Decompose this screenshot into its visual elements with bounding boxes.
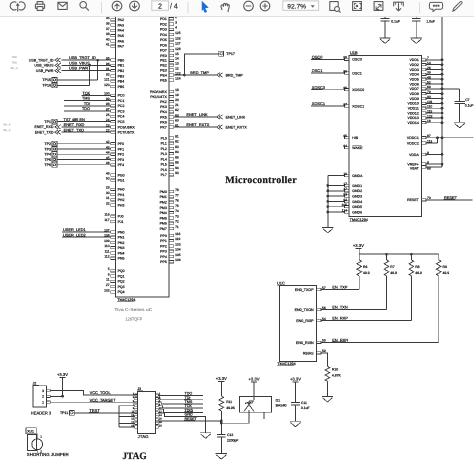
svg-text:USB_PWR: USB_PWR <box>69 66 88 71</box>
net label XOSC1 <box>312 101 326 106</box>
svg-text:OSC1: OSC1 <box>352 71 362 75</box>
wire GND4 <box>328 200 345 202</box>
svg-text:EN_RXP: EN_RXP <box>332 316 348 321</box>
svg-text:76: 76 <box>175 199 179 203</box>
svg-text:Microcontroller: Microcontroller <box>225 175 297 186</box>
power rail +3.3V vertical bus (right of U1B) <box>441 8 443 167</box>
svg-text:BN_A: BN_A <box>4 124 11 127</box>
pin PM6 (72) <box>160 220 179 226</box>
svg-text:73: 73 <box>175 214 179 218</box>
pin PH2 (31) <box>106 196 125 202</box>
pin PQ3 (27) <box>106 283 125 289</box>
svg-text:1: 1 <box>40 435 42 439</box>
pin PN0 (107) <box>104 228 124 234</box>
svg-text:112: 112 <box>104 255 109 259</box>
wire EN_TXP <box>321 289 359 291</box>
svg-text:BN_A: BN_A <box>4 129 11 132</box>
svg-text:XU1: XU1 <box>27 430 34 434</box>
svg-text:PA7: PA7 <box>118 45 124 49</box>
svg-text:GND4: GND4 <box>352 200 362 204</box>
svg-text:94: 94 <box>175 166 179 170</box>
test point TP1 <box>44 119 56 124</box>
svg-text:86: 86 <box>175 161 179 165</box>
svg-text:C11: C11 <box>301 401 307 405</box>
pin PL7 (93) <box>161 171 179 177</box>
pin PL0 (81) <box>161 134 179 140</box>
pin PQ0 (5) <box>108 267 125 273</box>
margin note BN_A <box>4 124 11 127</box>
svg-text:TBD: TBD <box>12 56 17 59</box>
pin VREF+ (9) <box>407 161 429 167</box>
title Microcontroller <box>225 175 297 186</box>
toolbar icon: print <box>37 2 43 5</box>
svg-text:PK7: PK7 <box>160 125 167 129</box>
svg-text:PG1: PG1 <box>118 179 125 183</box>
off-page connector ENET_TXD <box>55 130 61 134</box>
ground <box>380 38 391 44</box>
svg-text:PE3: PE3 <box>160 68 167 72</box>
net label VCC_TARGET <box>89 397 116 402</box>
svg-text:18: 18 <box>175 88 179 92</box>
pin PE0 (15) <box>160 52 179 58</box>
net label OSC1 <box>312 68 323 73</box>
pin PA7 (41) <box>106 43 124 49</box>
svg-text:VDD7: VDD7 <box>409 87 418 91</box>
pin PD6 (127) <box>160 42 181 48</box>
capacitor C13 2200pF <box>217 421 239 454</box>
svg-text:VDD14: VDD14 <box>408 121 419 125</box>
wire BRD_TMP from PE4 <box>174 74 217 76</box>
label TM4C1294 under U1B <box>349 218 367 222</box>
net label ENET_RXTX <box>186 122 210 127</box>
svg-text:PL0: PL0 <box>161 136 167 140</box>
test point TP4 <box>44 152 56 157</box>
svg-text:128: 128 <box>175 47 181 51</box>
pin XOSC1 (67) <box>343 103 364 109</box>
net label ENET_LINK <box>186 112 208 117</box>
svg-text:USB_VBUS: USB_VBUS <box>34 64 54 68</box>
pin PE1 (14) <box>160 57 179 63</box>
pin PB1 (96) <box>106 62 124 68</box>
svg-text:103: 103 <box>175 242 181 246</box>
svg-text:PP1: PP1 <box>160 239 167 243</box>
wire rail to C7 <box>442 89 460 102</box>
svg-text:92: 92 <box>106 72 110 76</box>
svg-text:PL5: PL5 <box>161 163 167 167</box>
ground <box>322 396 333 402</box>
toolbar icon: signature pen <box>453 1 462 11</box>
svg-text:VDD12: VDD12 <box>408 111 419 115</box>
svg-text:118: 118 <box>175 232 180 236</box>
pin PD0 (1) <box>160 10 177 16</box>
net label TEST <box>89 408 100 413</box>
wire VDDC2 joins VDDC1 <box>426 138 437 143</box>
microcontroller U1A TM4C1294 (main GPIO block) <box>115 7 169 297</box>
svg-text:J3: J3 <box>137 387 141 391</box>
microcontroller U1B TM4C1294 (power/osc block) <box>349 50 421 216</box>
wire VREF+ to rail <box>426 163 443 166</box>
wire VDD7 to rail <box>426 87 443 90</box>
pin PA4 (37) <box>106 27 124 33</box>
wire GND from JTAG <box>158 413 206 433</box>
net label EN_TXP <box>332 285 348 290</box>
svg-text:PM3: PM3 <box>160 206 167 210</box>
off-page connector ENET_RXTX <box>217 125 248 130</box>
svg-text:1.0uF: 1.0uF <box>426 20 435 24</box>
svg-text:VDD5: VDD5 <box>409 78 418 82</box>
svg-text:20: 20 <box>175 98 179 102</box>
wire RBIAS to R10 <box>321 353 327 367</box>
svg-text:106: 106 <box>175 258 181 262</box>
pin PN5 (112) <box>104 255 124 261</box>
svg-text:49: 49 <box>106 171 110 175</box>
svg-text:PH1: PH1 <box>118 193 125 197</box>
svg-text:RESET: RESET <box>444 195 458 200</box>
svg-text:PF2: PF2 <box>118 153 124 157</box>
off-page connector USB_PWR <box>55 68 61 72</box>
svg-text:OSC1: OSC1 <box>312 68 323 73</box>
wire XOSC0 <box>311 89 345 91</box>
svg-text:PE1: PE1 <box>160 59 167 63</box>
svg-text:BRD_TMP: BRD_TMP <box>226 73 244 77</box>
svg-text:ENET_TXD: ENET_TXD <box>35 130 54 134</box>
pin PH1 (30) <box>106 191 125 197</box>
svg-text:PQ3: PQ3 <box>118 285 125 289</box>
wire VDD3 to rail <box>426 68 443 71</box>
pin PB3 (92) <box>106 72 124 78</box>
svg-text:PK5: PK5 <box>160 115 167 119</box>
net label USB_VBUS <box>69 60 90 65</box>
svg-text:PL3: PL3 <box>161 152 167 156</box>
net label RESET <box>184 417 197 421</box>
svg-text:PK4: PK4 <box>160 110 167 114</box>
svg-text:PC4: PC4 <box>118 115 125 119</box>
wire VDD6 to rail <box>426 83 443 86</box>
svg-text:TM4C1294: TM4C1294 <box>277 362 295 366</box>
net label BRD_TMP <box>190 70 209 75</box>
ground <box>322 227 333 233</box>
pin PK0/U4RX (18) <box>150 88 179 94</box>
pin PD2 (3) <box>160 20 177 26</box>
svg-text:PD7: PD7 <box>160 49 167 53</box>
margin note BN_A <box>11 67 18 70</box>
wire D1 to RESET node <box>220 412 249 424</box>
svg-text:105: 105 <box>175 253 181 257</box>
wire EN_RXP <box>321 320 411 322</box>
svg-text:92.7%: 92.7% <box>287 3 306 10</box>
svg-text:VDD1: VDD1 <box>409 58 418 62</box>
svg-text:PQ2: PQ2 <box>118 280 125 284</box>
label Tiva C-Series uC <box>114 307 152 312</box>
pin PL5 (86) <box>161 161 179 167</box>
svg-text:PC2: PC2 <box>118 104 125 108</box>
svg-text:ENET_RXTX: ENET_RXTX <box>226 125 248 129</box>
svg-text:25: 25 <box>106 113 110 117</box>
pin VDD14 (16) <box>408 119 431 125</box>
pin VDD5 (48) <box>409 76 430 82</box>
toolbar page number box <box>152 1 169 10</box>
svg-text:USB_TRGT_ID: USB_TRGT_ID <box>29 58 54 62</box>
svg-text:PJ1: PJ1 <box>118 220 124 224</box>
resistor R8 49.9 <box>409 254 422 320</box>
svg-text:75: 75 <box>175 204 179 208</box>
pin GNDA (10) <box>343 172 363 178</box>
net USB_TRGT_ID source text <box>29 58 54 62</box>
svg-text:85: 85 <box>175 155 179 159</box>
svg-text:OSC0: OSC0 <box>352 58 362 62</box>
wire RESET out <box>426 199 472 201</box>
svg-text:TP15: TP15 <box>42 78 51 82</box>
svg-text:21: 21 <box>175 103 179 107</box>
power +3.3V (D1) <box>248 377 259 401</box>
wire TMS to PC1 <box>64 100 110 102</box>
svg-text:+3.3V: +3.3V <box>216 376 227 381</box>
toolbar icon: presentation <box>394 2 404 6</box>
pin PC4 (25) <box>106 113 125 119</box>
pin PL2 (83) <box>161 145 179 151</box>
svg-text:PL1: PL1 <box>161 142 167 146</box>
svg-text:49.9: 49.9 <box>415 271 422 275</box>
svg-text:PA4: PA4 <box>118 29 124 33</box>
svg-text:PD5: PD5 <box>160 38 167 42</box>
svg-text:PP4: PP4 <box>160 255 167 259</box>
wire EN_TXN <box>321 309 386 311</box>
ground <box>200 433 211 439</box>
toolbar separator <box>101 2 103 13</box>
svg-text:D1: D1 <box>276 399 281 403</box>
svg-text:37: 37 <box>106 27 110 31</box>
pin VDDC1 (87) <box>407 134 431 140</box>
pin GND6 (114) <box>342 208 362 214</box>
pin PD1 (2) <box>160 15 177 21</box>
svg-text:2: 2 <box>42 395 44 399</box>
svg-text:19: 19 <box>175 93 179 97</box>
svg-text:RESET: RESET <box>407 198 420 202</box>
off-page connector BRD_TMP <box>217 73 244 78</box>
net label EN_RXN <box>332 337 348 342</box>
svg-text:TBD: TBD <box>12 62 17 65</box>
wire TST 485 EN to PC5 <box>57 121 111 123</box>
svg-text:32: 32 <box>106 202 110 206</box>
svg-text:PL2: PL2 <box>161 147 167 151</box>
svg-text:PD2: PD2 <box>160 22 167 26</box>
toolbar icon: comment <box>429 2 442 11</box>
toolbar icon: zoom out <box>244 1 254 11</box>
svg-text:PK3: PK3 <box>160 105 167 109</box>
pin PF4 (46) <box>106 161 124 167</box>
svg-text:R11: R11 <box>226 400 232 404</box>
svg-text:BAS40: BAS40 <box>276 404 287 408</box>
wire USB_TRGT_ID to PB0 <box>62 59 111 61</box>
pin PL1 (82) <box>161 140 179 146</box>
connector J3 JTAG 20-pin <box>131 387 162 439</box>
svg-text:PP5: PP5 <box>160 260 167 264</box>
svg-text:29: 29 <box>106 186 110 190</box>
wire VDD14 to rail <box>426 121 443 124</box>
wire TP4 to PF2 <box>57 153 111 155</box>
pin PA2 (35) <box>106 16 124 22</box>
pin PC5 (24) <box>106 118 125 124</box>
wire TDI to PC2 <box>64 105 110 107</box>
pin PK2 (20) <box>160 98 179 104</box>
capacitor 1.0uF (top decoupling) <box>412 8 435 38</box>
pin GND2 (47) <box>343 187 362 193</box>
resistor R11 49.9K <box>219 396 236 421</box>
svg-text:BN_A: BN_A <box>11 67 18 70</box>
pin VDD3 (26) <box>409 66 430 72</box>
svg-text:EN0_TXOP: EN0_TXOP <box>295 288 314 292</box>
svg-text:PQ0: PQ0 <box>118 269 125 273</box>
svg-text:PC3: PC3 <box>118 109 125 113</box>
off-page connector USB_VBUS <box>55 63 61 67</box>
pin PA5 (38) <box>106 32 124 38</box>
pin VDD6 (52) <box>409 80 430 86</box>
svg-text:USER_LED2: USER_LED2 <box>63 232 86 237</box>
net label TDI <box>84 102 91 106</box>
wire VDD9 to rail <box>426 97 443 100</box>
svg-text:TP1: TP1 <box>44 120 51 124</box>
junction on PB0 wire <box>96 59 99 62</box>
svg-text:HIB: HIB <box>352 136 359 140</box>
diode D1 BAS40 <box>239 397 286 419</box>
ground <box>411 38 422 44</box>
pin PB0 (95) <box>106 57 124 63</box>
net label USER_LED1 <box>63 227 86 232</box>
net label EN_TXN <box>332 305 348 310</box>
toolbar zoom level box <box>283 1 319 10</box>
wire TMS from JTAG <box>158 402 203 404</box>
pin PM2 (76) <box>160 199 179 205</box>
svg-text:ENET_LINK: ENET_LINK <box>226 115 246 119</box>
wire to TP17 <box>184 54 218 75</box>
pin VDD2 (14) <box>409 61 430 67</box>
svg-text:121: 121 <box>104 78 110 82</box>
pin PP3 (104) <box>160 248 181 254</box>
pin VBAT (68) <box>410 166 431 171</box>
svg-text:VDD3: VDD3 <box>409 68 418 72</box>
wire OSC0 <box>311 58 345 60</box>
svg-text:15: 15 <box>131 417 134 420</box>
power +3.3V (R11) <box>216 376 227 396</box>
wire TDO from JTAG <box>158 394 203 396</box>
svg-text:120: 120 <box>104 83 110 87</box>
pin VDDC2 (113) <box>407 139 432 145</box>
label TM4C1294 under U1A <box>117 298 135 302</box>
test point TP16 <box>42 83 56 88</box>
net ENET_TXD source text <box>35 130 54 134</box>
wire TP6 to PF4 <box>57 164 111 166</box>
wire TP3 to PF1 <box>57 148 111 150</box>
pin GND3 (53) <box>343 193 362 199</box>
svg-text:R6: R6 <box>363 265 367 269</box>
svg-text:VDD13: VDD13 <box>408 116 419 120</box>
svg-text:0.1uF: 0.1uF <box>301 406 310 410</box>
pin EN0_TXOP (57) <box>295 286 326 292</box>
svg-text:VDD9: VDD9 <box>409 97 418 101</box>
wire TCK from JTAG <box>158 406 203 408</box>
pin VDD4 (39) <box>409 71 430 77</box>
pin PP4 (105) <box>160 253 181 259</box>
net label EN_RXP <box>332 316 348 321</box>
pin VDD10 (101) <box>408 100 433 106</box>
svg-text:VDDA: VDDA <box>409 153 419 157</box>
svg-text:PL4: PL4 <box>161 157 167 161</box>
svg-text:PA5: PA5 <box>118 34 124 38</box>
pin PF3 (45) <box>106 156 124 162</box>
wire VDDA to rail <box>426 153 443 156</box>
pin PK7 (61) <box>160 123 179 129</box>
power +3.3V (ethernet pull-ups) <box>353 243 364 254</box>
svg-text:PK2: PK2 <box>160 100 167 104</box>
toolbar icon: hand/share tool <box>10 2 16 10</box>
svg-text:GND3: GND3 <box>352 194 362 198</box>
pin PK1/U4TX (19) <box>150 93 179 99</box>
wire TDI from JTAG <box>158 399 203 400</box>
svg-text:PN5: PN5 <box>118 257 125 261</box>
svg-text:84: 84 <box>175 150 179 154</box>
pin VDD9 (90) <box>409 95 430 101</box>
svg-text:PC0: PC0 <box>118 94 125 98</box>
svg-text:PG0: PG0 <box>118 173 125 177</box>
svg-text:14: 14 <box>175 57 179 61</box>
svg-text:49.9: 49.9 <box>390 271 397 275</box>
svg-text:TP4: TP4 <box>44 153 51 157</box>
svg-text:49.9: 49.9 <box>363 271 370 275</box>
svg-text:PF4: PF4 <box>118 163 124 167</box>
pin PM1 (77) <box>160 193 179 199</box>
svg-text:72: 72 <box>175 220 179 224</box>
svg-text:VCC_TOOL: VCC_TOOL <box>90 390 112 395</box>
svg-text:1: 1 <box>42 401 44 405</box>
margin note TBD <box>12 56 17 59</box>
pin PP2 (103) <box>160 242 181 248</box>
svg-text:27: 27 <box>106 283 110 287</box>
pin EN0_RXIP (54) <box>296 317 326 323</box>
pin PL6 (94) <box>161 166 179 172</box>
svg-text:20: 20 <box>159 425 162 428</box>
pin PA1 (34) <box>106 11 124 17</box>
svg-text:ENET_LINK: ENET_LINK <box>186 112 208 117</box>
svg-text:81: 81 <box>175 134 179 138</box>
svg-text:PH3: PH3 <box>118 203 125 207</box>
pin PP1 (119) <box>160 237 180 243</box>
pin PM0 (78) <box>160 188 179 194</box>
svg-text:EN_RXN: EN_RXN <box>332 337 348 342</box>
svg-text:PM5: PM5 <box>160 216 167 220</box>
net label USB_TRGT_ID <box>69 55 96 60</box>
svg-text:EN_TXN: EN_TXN <box>332 305 348 310</box>
pin PM7 (71) <box>160 225 179 231</box>
svg-text:VDDC1: VDDC1 <box>407 136 419 140</box>
junction BRD_TMP/TP17 <box>183 74 186 77</box>
ground bus for U1B GND pins <box>326 175 329 227</box>
wire TP16 to USB_VBUS net <box>57 65 90 85</box>
svg-text:2200pF: 2200pF <box>227 438 239 442</box>
svg-text:111: 111 <box>105 249 110 253</box>
pin PK3 (21) <box>160 103 179 109</box>
pin PC0 (100) <box>104 92 124 98</box>
svg-text:PP3: PP3 <box>160 250 167 254</box>
svg-text:0.1uF: 0.1uF <box>391 20 400 24</box>
ground <box>216 454 227 460</box>
pin PJ0 (116) <box>104 213 123 219</box>
svg-text:TEST: TEST <box>89 408 100 413</box>
wire TCK to PC0 <box>82 94 111 96</box>
svg-text:38: 38 <box>106 32 110 36</box>
wire USB_VBUS to PB1 <box>62 64 111 66</box>
svg-text:VDD4: VDD4 <box>409 73 418 77</box>
pin PE4 (123) <box>160 71 181 77</box>
